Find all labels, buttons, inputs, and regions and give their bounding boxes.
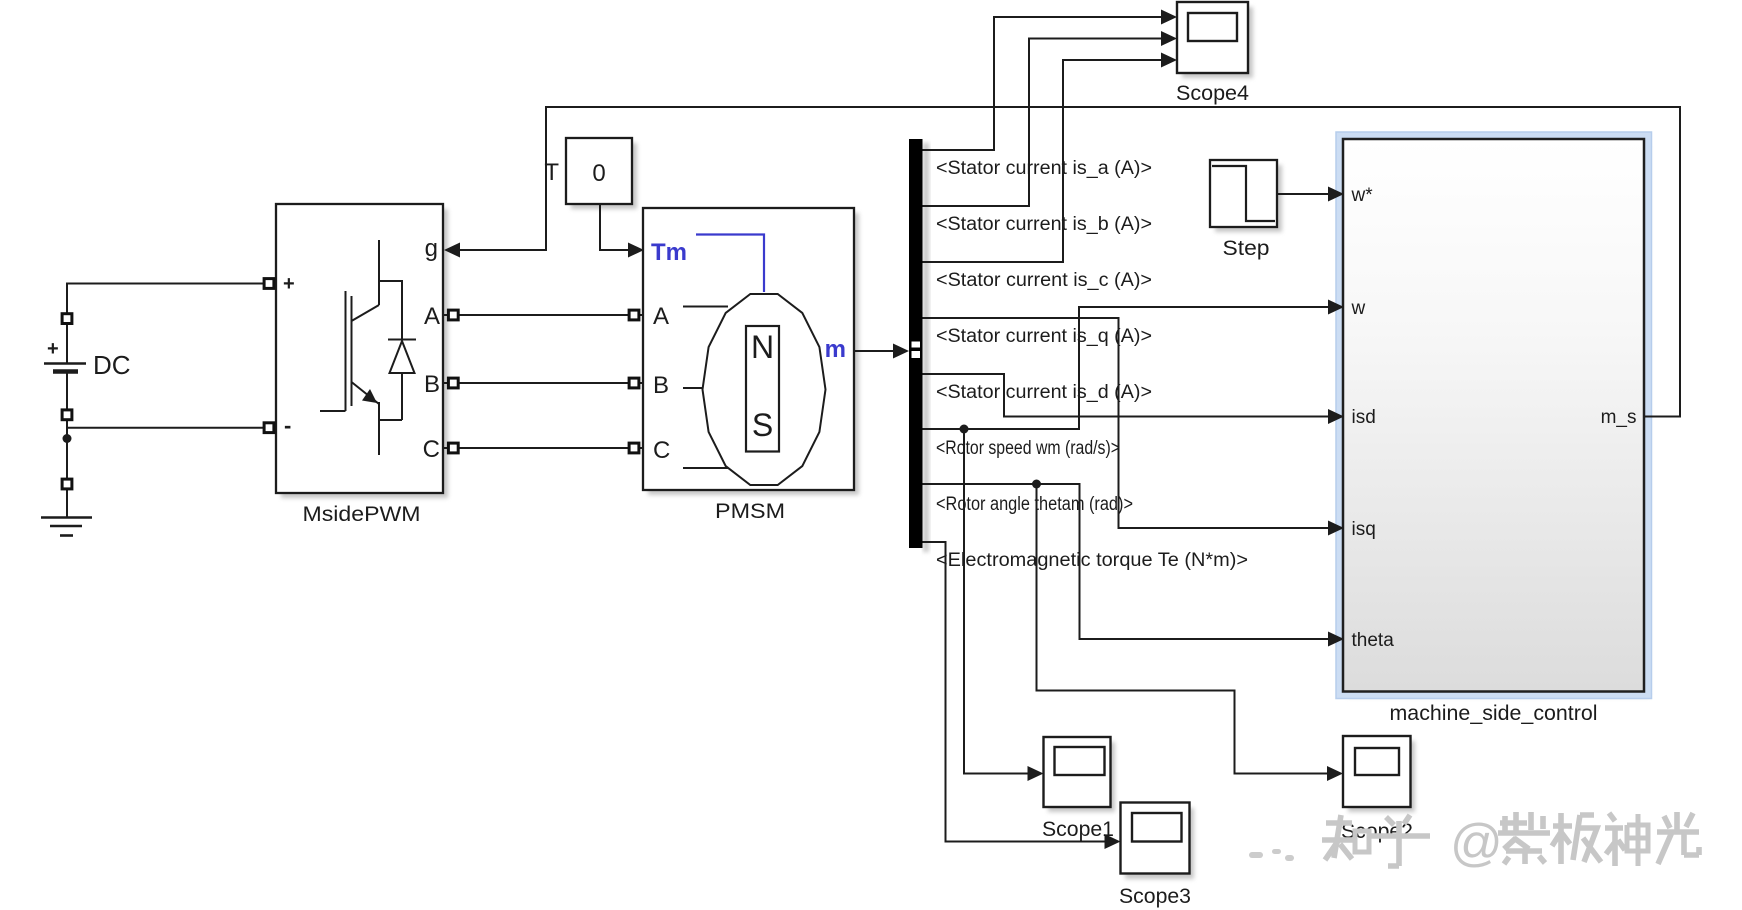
wire bus torque Te to Scope3	[923, 542, 1107, 842]
port square MsidePWM A	[448, 310, 458, 320]
battery top plate	[44, 362, 86, 364]
block Scope1	[1044, 737, 1111, 807]
block machine_side_control	[1343, 139, 1644, 692]
svg-text:DC: DC	[93, 350, 131, 380]
battery internal leads	[66, 324, 68, 364]
PMSM magnet rectangle	[746, 326, 779, 452]
block Scope4	[1177, 2, 1248, 73]
arrowhead Scope2 input	[1327, 766, 1343, 781]
DC source battery symbol	[44, 324, 86, 409]
wire DC+ to MsidePWM +	[67, 284, 263, 314]
svg-text:C: C	[653, 437, 670, 464]
block Scope3	[1121, 803, 1190, 874]
svg-text:<Stator current is_a (A)>: <Stator current is_a (A)>	[936, 158, 1152, 179]
svg-text:Scope1: Scope1	[1042, 818, 1114, 841]
wire constant 0 to PMSM Tm	[600, 204, 643, 250]
svg-text:C: C	[423, 436, 440, 463]
svg-text:Scope4: Scope4	[1176, 82, 1249, 105]
igbt gate lead	[320, 410, 346, 412]
svg-text:m: m	[825, 336, 846, 363]
svg-text:isd: isd	[1352, 407, 1376, 428]
arrowhead into MsidePWM g	[444, 243, 460, 258]
char zhi	[1322, 815, 1353, 860]
junction dot DC negative	[63, 434, 72, 443]
arrowhead Scope4 input 2	[1161, 31, 1177, 46]
svg-text:<Electromagnetic torque Te (N*: <Electromagnetic torque Te (N*m)>	[936, 550, 1248, 571]
block shadow Scope4	[1182, 7, 1253, 78]
diode triangle	[390, 341, 415, 373]
Scope3 screen	[1132, 813, 1182, 842]
arrowhead Scope1 input	[1028, 766, 1044, 781]
block shadow MsidePWM	[281, 209, 448, 498]
Scope1 screen	[1055, 747, 1105, 775]
igbt gate bars	[345, 291, 347, 411]
svg-text:+: +	[283, 273, 295, 295]
arrowhead Scope4 input 1	[1161, 10, 1177, 25]
Scope2 screen	[1355, 748, 1399, 775]
block shadow Step	[1215, 165, 1282, 232]
svg-text:0: 0	[592, 160, 605, 187]
wire bus is_a to Scope4 input 1	[923, 17, 1163, 150]
PMSM winding stub A	[683, 306, 728, 308]
block shadow PMSM	[648, 213, 859, 495]
wire feedback m_s to g	[447, 107, 1680, 417]
svg-text:@: @	[1450, 814, 1503, 872]
char zi	[1498, 812, 1550, 864]
svg-text:-: -	[284, 413, 291, 438]
arrowhead machine isd	[1328, 409, 1344, 424]
svg-text:<Stator current is_d (A)>: <Stator current is_d (A)>	[936, 382, 1152, 403]
wire Step to machine w*	[1277, 193, 1329, 195]
diode anode lead	[401, 373, 403, 420]
port square PMSM A	[629, 310, 639, 320]
igbt top link to diode	[379, 281, 402, 339]
wire bus rotor angle thetam to machine theta	[923, 484, 1330, 639]
svg-text:MsidePWM: MsidePWM	[303, 503, 421, 526]
wire branch wm to Scope1	[964, 429, 1029, 774]
arrowhead Scope3 input	[1105, 834, 1121, 849]
block shadow machine_side_control	[1348, 144, 1649, 697]
svg-text:A: A	[424, 303, 440, 330]
Step icon	[1212, 166, 1275, 221]
PMSM rotor polygon	[703, 294, 826, 485]
block shadow constant T	[571, 143, 637, 209]
svg-text:S: S	[752, 407, 773, 443]
arrowhead machine isq	[1328, 521, 1344, 536]
port square DC -	[62, 410, 72, 420]
arrowhead machine w	[1328, 300, 1344, 315]
wire bus rotor speed wm to machine w	[923, 307, 1330, 429]
wire A MsidePWM to PMSM	[443, 314, 643, 316]
port square MsidePWM +	[264, 279, 274, 289]
svg-text:N: N	[751, 329, 774, 365]
arrowhead into bus selector	[893, 344, 909, 359]
svg-text:Tm: Tm	[651, 239, 687, 266]
PMSM winding stub C	[683, 467, 728, 469]
svg-text:theta: theta	[1352, 630, 1395, 651]
svg-text:+: +	[47, 338, 59, 360]
port square MsidePWM B	[448, 378, 458, 388]
svg-text:B: B	[424, 371, 440, 398]
svg-text:isq: isq	[1352, 519, 1376, 540]
char shen	[1605, 813, 1625, 866]
svg-text:m_s: m_s	[1601, 407, 1637, 428]
block shadow Scope1	[1048, 742, 1115, 812]
svg-text:<Stator current is_q (A)>: <Stator current is_q (A)>	[936, 326, 1152, 347]
diode cathode bar	[388, 339, 416, 341]
wire bus is_q to machine isq	[923, 318, 1330, 528]
wire DC- to MsidePWM -	[67, 427, 263, 429]
arrowhead into PMSM Tm	[628, 243, 644, 258]
junction dot wm branch	[960, 425, 969, 434]
wire DC- column	[66, 421, 68, 479]
wire B MsidePWM to PMSM	[443, 382, 643, 384]
svg-text:A: A	[653, 303, 669, 330]
wire bus is_b to Scope4 input 2	[923, 39, 1163, 207]
svg-text:w: w	[1351, 298, 1366, 319]
svg-text:<Stator current is_c (A)>: <Stator current is_c (A)>	[936, 270, 1152, 291]
arrowhead Scope4 input 3	[1161, 53, 1177, 68]
Scope4 screen	[1188, 13, 1237, 41]
svg-text:B: B	[653, 372, 669, 399]
wire bus is_c to Scope4 input 3	[923, 60, 1163, 262]
igbt collector lead	[378, 240, 380, 305]
machine_side_control selection halo	[1336, 132, 1652, 699]
char guang	[1657, 812, 1699, 864]
block PMSM	[643, 208, 854, 490]
igbt bottom link	[379, 419, 402, 421]
igbt collector diagonal	[352, 305, 380, 321]
svg-text:Step: Step	[1223, 237, 1270, 260]
bus selector icon notches	[912, 342, 921, 348]
svg-text:<Rotor angle thetam (rad)>: <Rotor angle thetam (rad)>	[936, 494, 1133, 515]
PMSM winding stub B	[683, 387, 703, 389]
arrowhead machine theta	[1328, 632, 1344, 647]
igbt emitter lead	[378, 402, 380, 455]
port square DC ground side	[62, 479, 72, 489]
PMSM blue wire from Tm to rotor	[696, 235, 764, 293]
ground symbol	[41, 490, 92, 536]
battery bottom plate	[53, 369, 78, 374]
igbt emitter diagonal	[352, 382, 380, 404]
char hu	[1369, 815, 1430, 866]
bus selector shadow	[923, 143, 929, 552]
junction dot thetam branch	[1032, 480, 1041, 489]
IGBT icon inside MsidePWM	[320, 240, 416, 455]
port square PMSM B	[629, 378, 639, 388]
block MsidePWM	[276, 204, 443, 493]
wire bus is_d to machine isd	[923, 374, 1330, 417]
igbt emitter arrowhead	[362, 389, 377, 403]
block constant T value 0	[566, 138, 632, 204]
block Step	[1210, 160, 1277, 227]
svg-text:Scope3: Scope3	[1119, 885, 1191, 908]
svg-text:w*: w*	[1351, 185, 1374, 206]
svg-text:machine_side_control: machine_side_control	[1390, 702, 1598, 725]
svg-text:PMSM: PMSM	[715, 500, 785, 523]
svg-text:g: g	[425, 235, 438, 262]
port square DC +	[62, 314, 72, 324]
port square MsidePWM -	[264, 423, 274, 433]
watermark specks	[1249, 849, 1294, 861]
wire C MsidePWM to PMSM	[443, 447, 643, 449]
wire branch thetam to Scope2	[1037, 484, 1329, 774]
char ji	[1552, 813, 1601, 864]
block shadow Scope2	[1348, 741, 1415, 812]
port square PMSM C	[629, 443, 639, 453]
arrowhead machine w*	[1328, 187, 1344, 202]
wire PMSM m to bus selector	[854, 350, 895, 352]
watermark text zhihu logo strokes	[1322, 812, 1699, 872]
port square MsidePWM C	[448, 443, 458, 453]
svg-text:<Stator current is_b (A)>: <Stator current is_b (A)>	[936, 214, 1152, 235]
block Scope2	[1343, 736, 1411, 807]
bus selector bar	[909, 139, 923, 548]
block shadow Scope3	[1125, 808, 1194, 879]
